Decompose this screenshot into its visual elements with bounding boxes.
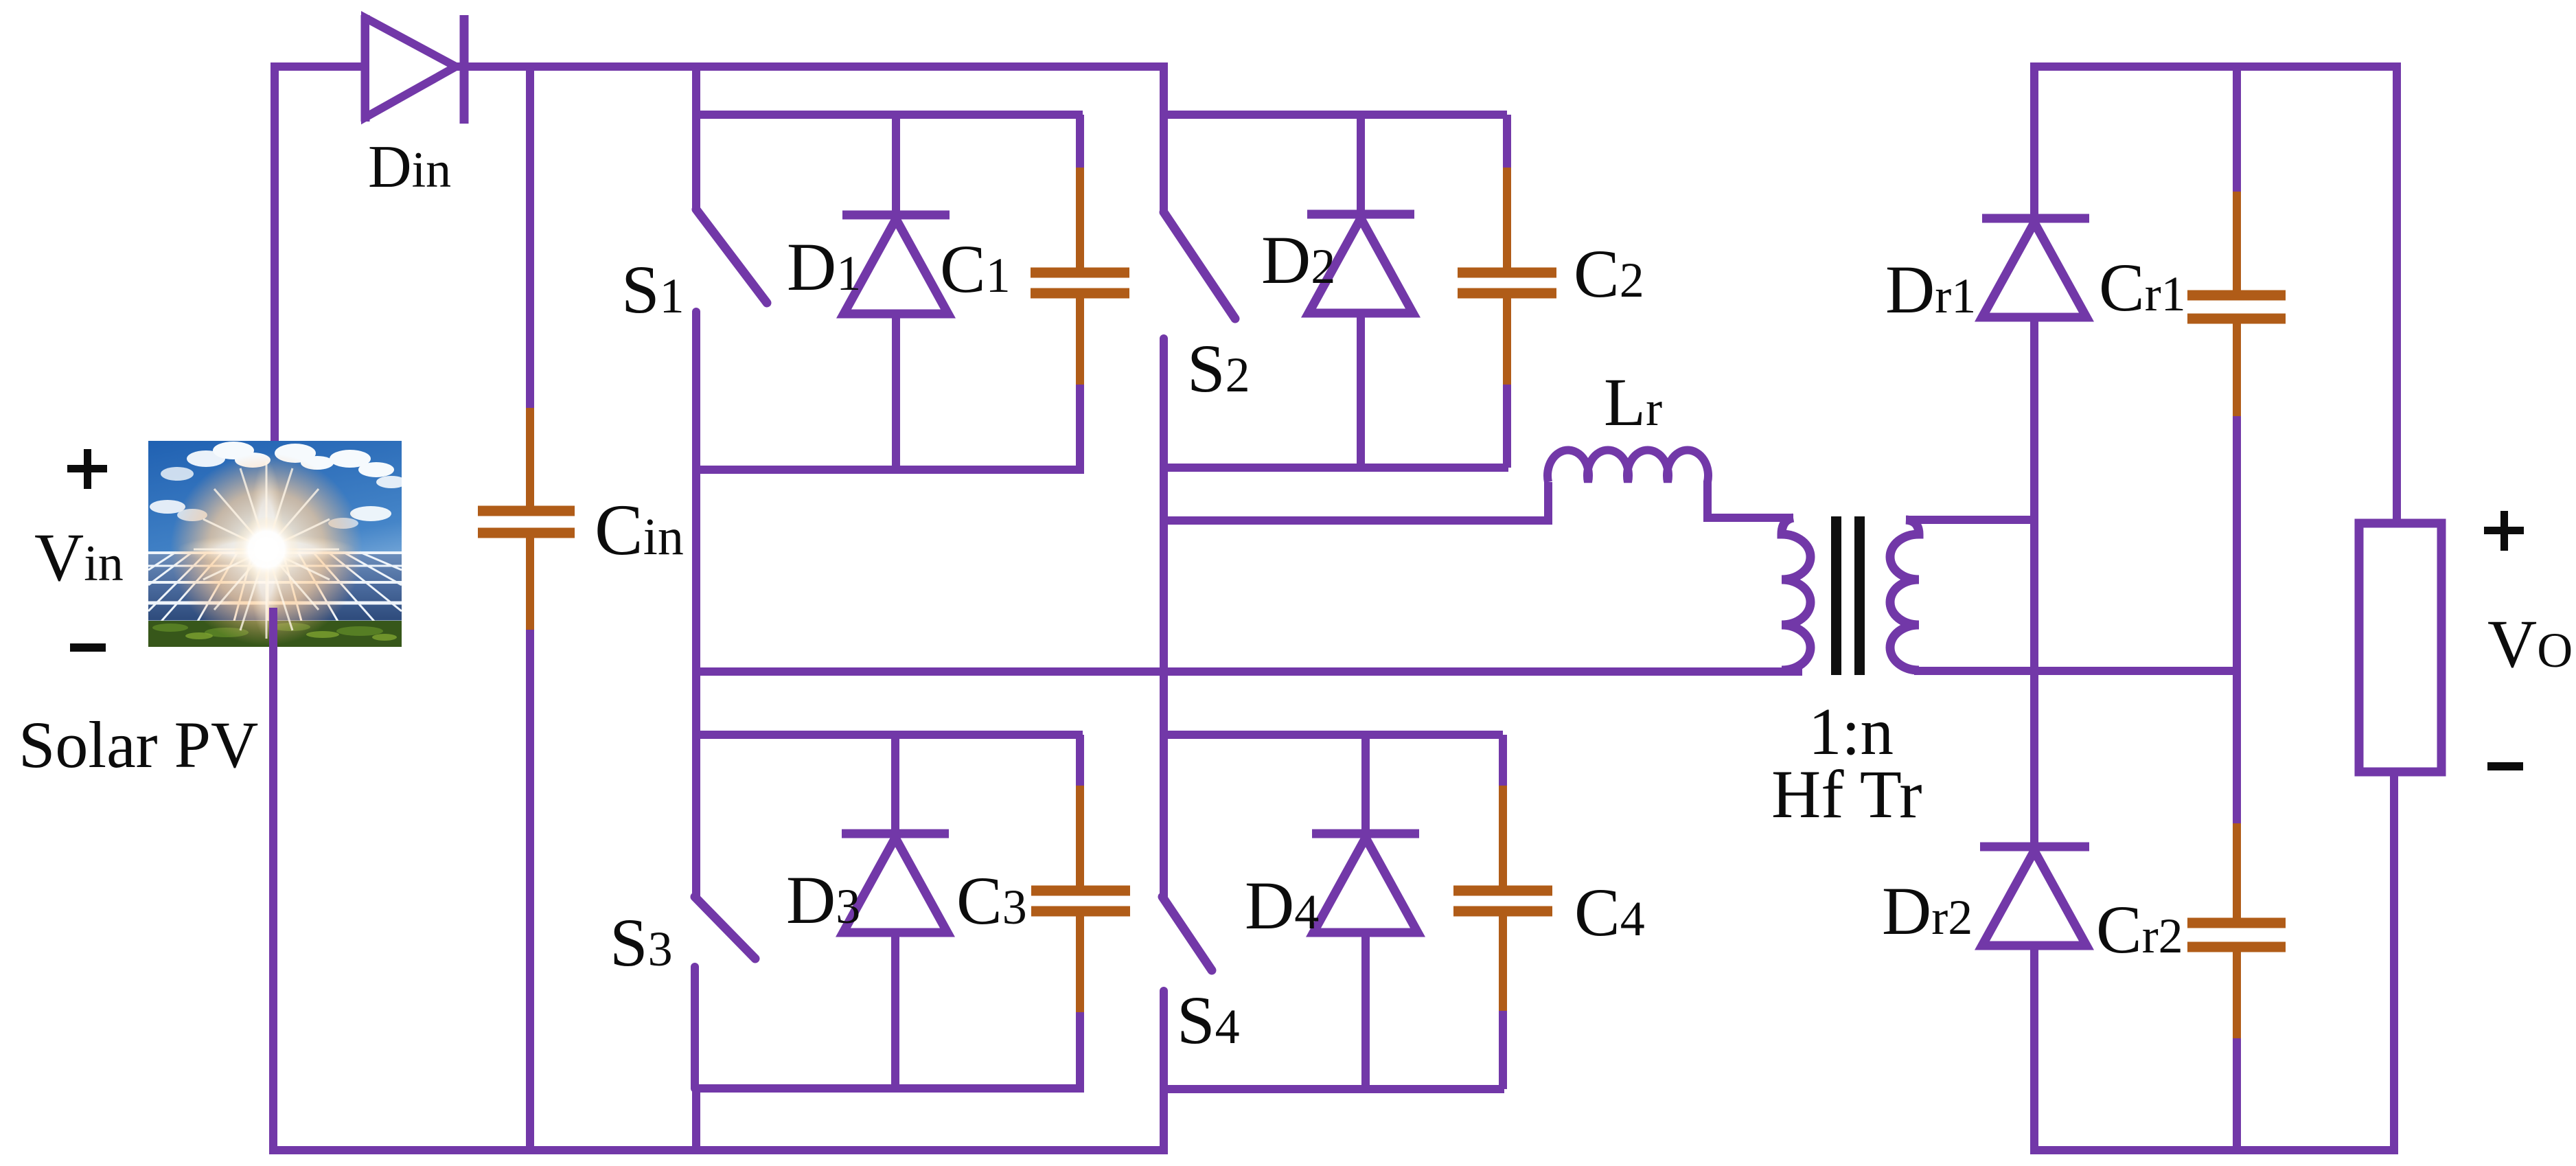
transformer core [1831,516,1865,675]
wire right leg upper (bus corner to S2) [1160,62,1168,214]
wire S1 cell top rail [692,111,1083,119]
wire node B feed (right leg midpoint to Lr) [1164,482,1548,521]
capacitor C1 [1031,115,1129,470]
capacitor Cin [478,67,575,1150]
svg-text:Dr1: Dr1 [1885,251,1976,328]
wire S3 cell bottom rail [692,1084,1084,1093]
wire right leg middle (S2 cell to S4) [1160,339,1168,899]
wire left leg lower (S3 cell to bottom bus) [692,1088,700,1150]
wire rectifier leg middle (Dr1 to Dr2) [2030,317,2038,847]
svg-text:VO: VO [2487,606,2573,682]
wire S2 cell bottom rail [1160,464,1508,472]
wire S1 cell bottom rail [692,466,1084,474]
svg-text:Lr: Lr [1604,364,1662,440]
transformer secondary winding [1890,520,1919,670]
svg-text:Cr2: Cr2 [2096,891,2183,968]
transformer primary winding [1782,518,1810,670]
wire PV positive riser [271,67,279,450]
wire secondary bottom lead [1914,667,2241,675]
wire load leg upper (bus to resistor) [2393,67,2401,527]
solar PV panel image [148,441,406,647]
switch S4 [1162,897,1212,1089]
inductor Lr [1548,450,1708,482]
wire secondary top lead [1906,516,2038,524]
switch S1 [696,209,767,470]
capacitor C4 [1453,735,1552,1089]
wire top bus left (PV corner to Din anode) [275,62,369,67]
wire rectifier leg lower (Dr2 to bottom bus) [2030,946,2038,1154]
wire bottom bus right [2030,1146,2398,1154]
switch S3 [695,897,755,1088]
wire Lr to transformer primary [1707,481,1793,518]
svg-text:Hf Tr: Hf Tr [1771,756,1922,832]
capacitor Cr2 [2187,823,2286,1150]
wire right leg lower (S4 cell to bottom bus) [1160,1089,1168,1150]
label minus input [70,643,106,652]
switch S2 [1164,212,1235,470]
svg-text:S3: S3 [610,904,673,981]
wire top bus (Din cathode to right leg corner) [456,62,1168,71]
svg-text:S1: S1 [621,251,685,328]
svg-text:Cin: Cin [595,490,684,570]
label plus output [2484,511,2524,551]
svg-text:Vin: Vin [34,519,124,595]
svg-text:D2: D2 [1261,222,1335,298]
diode D2 [1307,115,1414,468]
wire left leg upper (top bus to S1) [692,67,700,212]
wire rectifier leg upper (bus to Dr1) [2030,67,2038,218]
wire S2 cell top rail [1160,111,1507,119]
svg-text:D3: D3 [786,862,860,938]
wire load leg lower (resistor to bottom bus) [2390,772,2398,1154]
svg-text:D4: D4 [1245,867,1319,944]
svg-text:C2: C2 [1574,236,1644,312]
svg-text:D1: D1 [787,229,861,305]
wire left leg middle (S1 cell to S3) [692,470,700,899]
diode Dr2 [1980,847,2089,946]
diode D3 [842,735,949,1088]
wire top bus right [2034,62,2401,67]
wire node A rail (left leg midpoint to transformer primary bottom) [696,667,1802,676]
diode Dr1 [1982,218,2089,317]
label minus output [2487,762,2523,770]
svg-text:S4: S4 [1177,982,1240,1058]
resistor load Vo [2359,523,2441,772]
wire S3 cell top rail [692,731,1083,739]
capacitor C2 [1458,115,1556,468]
diode Din [365,15,464,124]
diode D1 [842,115,950,470]
svg-text:Din: Din [368,134,451,201]
svg-text:S2: S2 [1187,330,1250,407]
wire bottom bus left [269,1146,1168,1154]
svg-text:C1: C1 [940,231,1011,307]
wire PV negative drop [269,608,277,1154]
label plus input [67,449,107,489]
diode D4 [1312,735,1419,1089]
wire S4 cell bottom rail [1160,1085,1504,1093]
svg-text:C3: C3 [956,862,1027,939]
wire S4 cell top rail [1160,731,1503,739]
svg-text:C4: C4 [1574,874,1645,950]
capacitor C3 [1031,735,1130,1088]
svg-text:Dr2: Dr2 [1882,873,1973,949]
svg-text:Solar PV: Solar PV [19,708,258,781]
capacitor Cr1 [2187,67,2286,827]
svg-text:Cr1: Cr1 [2099,249,2186,325]
